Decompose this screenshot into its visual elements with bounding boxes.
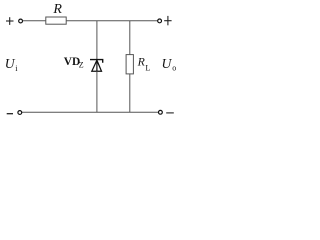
label U i bbox=[5, 56, 18, 73]
label R L bbox=[137, 55, 151, 73]
terminal circle top-right bbox=[158, 19, 162, 23]
label VD Z bbox=[64, 56, 84, 69]
terminal circle top-left bbox=[19, 19, 23, 23]
wire top rail resistor to right terminal bbox=[66, 20, 158, 22]
output + sign bbox=[164, 16, 171, 25]
svg-text:Z: Z bbox=[79, 60, 84, 69]
input - sign bbox=[7, 113, 13, 115]
input + sign bbox=[6, 17, 14, 25]
wire zener branch lower bbox=[96, 71, 98, 112]
svg-text:U: U bbox=[162, 56, 173, 71]
svg-text:R: R bbox=[52, 2, 62, 17]
resistor R bbox=[46, 17, 66, 24]
zener diode VDZ bbox=[90, 60, 103, 72]
label U o bbox=[162, 56, 177, 73]
svg-text:U: U bbox=[5, 56, 16, 71]
output - sign bbox=[166, 112, 174, 114]
wire RL branch lower bbox=[129, 74, 131, 112]
svg-text:R: R bbox=[137, 55, 146, 69]
svg-text:L: L bbox=[145, 64, 150, 73]
svg-text:o: o bbox=[172, 64, 176, 73]
terminal circle bottom-right bbox=[159, 110, 163, 114]
svg-text:i: i bbox=[15, 64, 18, 73]
wire bottom rail bbox=[22, 111, 159, 113]
wire RL branch upper bbox=[129, 21, 131, 55]
resistor RL bbox=[126, 55, 133, 74]
wire zener branch upper bbox=[96, 21, 98, 60]
wire top-left to resistor bbox=[23, 20, 46, 22]
terminal circle bottom-left bbox=[18, 111, 22, 115]
